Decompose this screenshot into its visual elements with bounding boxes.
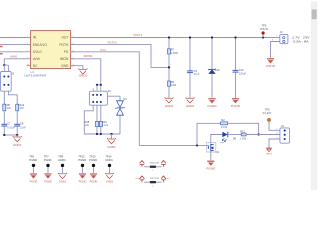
svg-text:C12: C12	[239, 68, 244, 72]
wire IN net	[0, 37, 27, 39]
svg-text:GND1: GND1	[79, 74, 88, 78]
resistor R2	[221, 122, 228, 125]
wire IMON1	[71, 59, 101, 85]
wire J1 left col down	[3, 91, 5, 104]
connector J2	[276, 37, 280, 39]
svg-text:2: 2	[27, 36, 28, 38]
wire GND pin	[71, 66, 83, 69]
wire R2 branch	[197, 123, 221, 145]
wire col C12	[235, 38, 237, 71]
ground GND1 col2	[186, 97, 194, 103]
wire J3 to TVS	[107, 96, 120, 101]
tvs diode D4	[115, 101, 124, 115]
ground PGND under TP7	[44, 173, 51, 178]
svg-text:AVIN1: AVIN1	[10, 55, 18, 59]
svg-text:10: 10	[27, 64, 29, 66]
svg-text:PGTH: PGTH	[59, 43, 69, 47]
svg-text:3: 3	[27, 43, 28, 45]
ground GND under J4	[266, 148, 272, 152]
svg-text:PG1: PG1	[220, 142, 225, 144]
svg-text:100: 100	[7, 106, 12, 110]
wire J1 bottom rail	[4, 134, 17, 136]
wire R13 to C8	[16, 111, 18, 125]
svg-text:C4: C4	[194, 69, 198, 73]
svg-text:1.10k: 1.10k	[102, 124, 109, 127]
svg-text:PGND: PGND	[206, 167, 216, 171]
svg-text:PGND: PGND	[231, 104, 241, 108]
wire R7 to junction	[168, 54, 170, 81]
connector J1	[4, 64, 8, 66]
svg-text:GND1: GND1	[13, 143, 22, 147]
svg-text:47uF: 47uF	[194, 72, 200, 76]
wire Q1 drain to LED	[211, 135, 223, 144]
wire D10 to gnd	[211, 74, 213, 98]
svg-text:1.68M: 1.68M	[171, 51, 178, 55]
svg-text:PGND: PGND	[136, 178, 142, 180]
wire C12 to gnd	[235, 72, 237, 98]
resistor R6	[168, 81, 171, 86]
wire R2 to corner	[228, 123, 259, 134]
ground PGND under TP10	[90, 173, 97, 178]
svg-text:VOUT1: VOUT1	[133, 33, 143, 37]
wire TP9 to J4 pin1	[269, 122, 280, 131]
wire J3 col2	[96, 105, 98, 121]
svg-text:PG1: PG1	[100, 48, 106, 52]
wire R8 to C7	[3, 111, 5, 125]
capacitor C12	[233, 69, 239, 71]
resistor R12	[241, 133, 246, 136]
ground PGND under Q1	[207, 161, 214, 166]
svg-text:PGND: PGND	[44, 180, 52, 184]
wire Q1 source to gnd	[210, 152, 212, 161]
svg-text:PGND: PGND	[30, 180, 38, 184]
net-tie resistor R26 DNP row	[144, 166, 162, 168]
wire col D10	[211, 38, 213, 70]
resistor R7	[168, 49, 171, 54]
svg-text:PGND: PGND	[89, 158, 97, 162]
svg-text:22nF: 22nF	[20, 125, 26, 129]
net label stub left edge 1	[0, 46, 3, 47]
svg-text:1: 1	[276, 129, 277, 131]
svg-text:1: 1	[152, 170, 153, 172]
ground PGND under TP6	[30, 173, 37, 178]
resistor R13	[16, 104, 19, 111]
svg-text:GND1: GND1	[106, 180, 114, 184]
svg-text:R26 DNP: R26 DNP	[150, 162, 160, 164]
svg-text:PGND: PGND	[79, 180, 87, 184]
node PG-R2 junction	[196, 144, 198, 146]
led D6	[222, 132, 228, 142]
svg-text:GND1: GND1	[58, 158, 66, 162]
net label stub left edge 2	[0, 53, 3, 54]
svg-text:1: 1	[276, 35, 277, 37]
U1 pin stubs right	[71, 37, 75, 39]
svg-text:2: 2	[276, 133, 277, 135]
ground GND1 col1	[165, 97, 173, 103]
node PGTH junction	[168, 66, 170, 68]
svg-text:R27 DNP: R27 DNP	[150, 178, 160, 180]
ground GND1 under J1 filters	[16, 135, 18, 137]
svg-text:VOUT1: VOUT1	[260, 27, 269, 31]
wire col C4	[189, 38, 191, 71]
svg-text:dVdt: dVdt	[33, 57, 40, 61]
wire J3 col1 jog to rail	[84, 105, 93, 134]
svg-text:PGND: PGND	[29, 158, 37, 162]
svg-text:R2: R2	[221, 118, 225, 122]
wire dVdt / AVIN1	[4, 59, 26, 65]
svg-text:R12: R12	[240, 129, 245, 133]
testpoint TP9	[267, 118, 270, 121]
svg-text:GND1: GND1	[105, 158, 113, 162]
svg-text:PGND: PGND	[208, 104, 218, 108]
svg-text:OUT: OUT	[62, 36, 69, 40]
ground PGND under J2	[267, 58, 274, 63]
node AVIN junction	[3, 64, 5, 66]
svg-text:PGND: PGND	[44, 158, 52, 162]
IC U1 LM73100 body	[31, 31, 71, 69]
ground PGND under TP13	[79, 173, 86, 178]
svg-text:GND: GND	[61, 64, 69, 68]
svg-text:1.00k: 1.00k	[240, 136, 247, 140]
svg-text:D10: D10	[215, 68, 220, 72]
wire LED to R12	[228, 134, 241, 136]
capacitor C7	[1, 123, 7, 125]
svg-text:NC: NC	[33, 64, 38, 68]
connector J4	[280, 128, 290, 143]
svg-text:PGND: PGND	[78, 158, 86, 162]
wire IMON to J3	[97, 84, 101, 86]
wire VOUT1 rail	[71, 37, 276, 39]
svg-text:100: 100	[19, 106, 24, 110]
svg-text:OVLO: OVLO	[33, 50, 43, 54]
scrollbar thumb	[312, 9, 317, 19]
wire EN/UVLO net	[0, 44, 27, 46]
ground GND1 under TP14	[105, 173, 113, 179]
svg-text:GND1: GND1	[165, 104, 174, 108]
ground PGND col3	[208, 98, 215, 103]
wire J4 pin3 to gnd	[269, 139, 280, 148]
capacitor C4	[187, 70, 193, 72]
svg-text:PGND: PGND	[266, 64, 276, 68]
wire PGTH1	[71, 45, 169, 68]
ground GND1 under TP8	[58, 173, 66, 179]
svg-text:IMON: IMON	[60, 57, 69, 61]
scrollbar track	[311, 2, 318, 191]
svg-text:140k: 140k	[171, 83, 177, 87]
net-tie resistor R27 DNP row	[144, 181, 162, 183]
svg-text:LM73100RPWT: LM73100RPWT	[24, 74, 46, 78]
wire col R7	[168, 38, 170, 49]
svg-text:6: 6	[27, 57, 28, 59]
svg-text:PG: PG	[64, 50, 69, 54]
U1 pin stubs left	[27, 37, 31, 39]
resistor R19	[99, 121, 102, 126]
resistor R8	[3, 104, 6, 111]
svg-text:PGTH1: PGTH1	[108, 40, 118, 44]
svg-text:Q1: Q1	[216, 150, 220, 154]
wire C4 to gnd	[189, 73, 191, 98]
svg-text:D6: D6	[233, 137, 237, 141]
svg-text:C7: C7	[7, 122, 11, 126]
wire R12 to J4	[246, 134, 280, 136]
wire R6 to gnd	[168, 86, 170, 98]
ground GND1 under U1	[79, 68, 87, 74]
wire J3 col3	[100, 105, 102, 121]
svg-text:7: 7	[27, 50, 28, 52]
svg-text:0.5A - 8A: 0.5A - 8A	[293, 40, 309, 44]
zener diode D10	[208, 69, 216, 74]
svg-text:2: 2	[152, 185, 153, 187]
ground GND1 under J3	[111, 134, 113, 139]
wire J1 right col jog	[8, 91, 17, 104]
wire TVS to rail	[119, 115, 121, 134]
resistor R18	[96, 121, 99, 126]
svg-text:100: 100	[85, 124, 90, 127]
svg-text:15.0k: 15.0k	[221, 125, 228, 129]
svg-text:GND1: GND1	[165, 178, 170, 180]
ground PGND col4	[232, 98, 239, 103]
svg-text:EN/UVLO: EN/UVLO	[33, 43, 48, 47]
svg-text:IMON1: IMON1	[84, 54, 93, 58]
wire OVLO net	[0, 51, 27, 53]
svg-text:VCC_EXT1: VCC_EXT1	[262, 111, 271, 115]
svg-text:TP9: TP9	[265, 107, 270, 111]
svg-text:C8: C8	[20, 122, 24, 126]
svg-text:GND1: GND1	[186, 104, 195, 108]
testpoint TP5	[262, 36, 264, 38]
wire J3 bottom rail	[84, 133, 120, 135]
node LED line junction	[257, 133, 259, 135]
svg-text:220uF: 220uF	[239, 72, 247, 76]
svg-text:GND1: GND1	[266, 154, 273, 156]
svg-text:GND1: GND1	[59, 180, 67, 184]
transistor Q1	[207, 142, 216, 152]
wire PG1	[71, 52, 209, 146]
svg-text:PGND: PGND	[90, 180, 98, 184]
svg-text:GND1: GND1	[107, 145, 116, 149]
capacitor C8	[14, 123, 20, 125]
connector J3	[89, 91, 107, 105]
